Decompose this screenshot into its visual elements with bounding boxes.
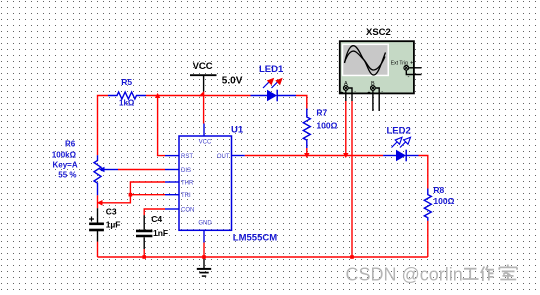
U1 pin TRI xyxy=(165,193,191,199)
svg-text:+: + xyxy=(340,90,343,96)
svg-text:OUT: OUT xyxy=(217,154,230,160)
wire R6.bottom to C3.top xyxy=(97,195,99,208)
potentiometer R6 xyxy=(52,140,118,196)
wire scope A- to ground bus xyxy=(351,101,353,257)
resistor R7 xyxy=(303,108,337,149)
wire THR net xyxy=(100,182,165,203)
op-amp U1 LM555CM timer body xyxy=(179,125,277,244)
U1 pin DIS xyxy=(165,168,191,174)
svg-text:RST: RST xyxy=(181,154,193,160)
LED LED1 (lit) xyxy=(251,64,297,101)
wire R5.right to LED1 anode (top rail) xyxy=(146,95,251,97)
ground xyxy=(197,257,211,276)
wire R7.bottom to OUT net xyxy=(306,148,308,156)
wire R5.left to R6.top rail xyxy=(98,96,109,156)
wire C3.bottom to ground bus xyxy=(97,242,99,257)
oscilloscope screen with sine trace xyxy=(342,44,389,77)
svg-text:100kΩ: 100kΩ xyxy=(52,151,77,160)
U1 pin GND (bottom) xyxy=(198,221,212,243)
junction TRI/THR tap xyxy=(129,193,133,197)
oscilloscope terminal A xyxy=(340,81,356,101)
svg-text:C4: C4 xyxy=(151,214,162,224)
junction scope A+/OUT tap xyxy=(343,153,348,158)
svg-text:GND: GND xyxy=(198,221,212,227)
capacitor C4 xyxy=(136,214,168,249)
wire scope A+ to OUT net xyxy=(345,101,347,156)
resistor R8 xyxy=(424,185,454,221)
svg-text:R5: R5 xyxy=(121,77,132,87)
svg-text:LED1: LED1 xyxy=(259,64,284,75)
wire TRI net xyxy=(130,194,165,196)
wire C4.bottom to ground bus xyxy=(143,249,145,257)
U1 pin RST xyxy=(165,154,193,160)
watermark CSDN @corlin studio xyxy=(346,265,518,285)
svg-text:R8: R8 xyxy=(433,185,444,195)
svg-text:R6: R6 xyxy=(65,140,76,149)
junction scope A-/ground bus xyxy=(350,255,354,259)
svg-text:55 %: 55 % xyxy=(58,171,76,180)
wire OUT net horizontal run xyxy=(245,155,383,157)
svg-text:XSC2: XSC2 xyxy=(366,27,391,38)
svg-text:VCC: VCC xyxy=(199,140,212,146)
wire RST net xyxy=(158,96,165,156)
junction R5/RST tap xyxy=(155,93,160,98)
svg-text:Key=A: Key=A xyxy=(53,161,78,170)
U1 pin OUT xyxy=(217,154,245,160)
svg-text:-: - xyxy=(381,89,383,95)
svg-text:CON: CON xyxy=(181,208,194,214)
wire CON net to C4.top xyxy=(144,209,165,215)
resistor R5 xyxy=(108,77,146,108)
junction VCC tap xyxy=(199,91,204,96)
wire R8.bottom to ground bus xyxy=(427,221,429,257)
svg-text:R7: R7 xyxy=(316,108,327,118)
wire VCC tap to U1 VCC pin xyxy=(203,92,205,124)
svg-text:-: - xyxy=(354,89,356,95)
wire DIS net (from R6 wiper) xyxy=(118,169,165,171)
oscilloscope terminal Ext Trig xyxy=(391,60,422,80)
oscilloscope terminal B xyxy=(367,81,383,111)
svg-text:VCC: VCC xyxy=(193,61,213,72)
svg-text:TRI: TRI xyxy=(181,193,191,199)
svg-text:1nF: 1nF xyxy=(153,228,168,238)
svg-text:1kΩ: 1kΩ xyxy=(119,99,135,108)
junction THR wire at R6 bottom xyxy=(97,200,103,206)
svg-text:1µF: 1µF xyxy=(106,220,121,230)
svg-text:+: + xyxy=(367,90,370,96)
junction GND pin/ground bus xyxy=(202,255,206,259)
svg-text:C3: C3 xyxy=(106,207,117,217)
svg-text:+: + xyxy=(410,61,414,67)
capacitor C3 (polarized) xyxy=(89,207,121,242)
U1 pin VCC (top) xyxy=(199,124,212,146)
svg-text:LM555CM: LM555CM xyxy=(233,233,277,244)
wire ground bus xyxy=(98,256,428,258)
wire U1 GND pin to ground bus xyxy=(203,243,205,258)
VCC power symbol, 5.0V xyxy=(190,61,243,91)
junction C4/ground bus xyxy=(142,255,146,259)
oscilloscope XSC2 body xyxy=(340,27,414,93)
svg-text:THR: THR xyxy=(181,181,194,187)
U1 pin CON xyxy=(165,208,194,214)
svg-text:100Ω: 100Ω xyxy=(316,121,337,131)
svg-text:LED2: LED2 xyxy=(387,126,411,137)
U1 pin THR xyxy=(165,181,194,187)
wire LED1 cathode to R7.top xyxy=(296,96,307,109)
svg-text:-: - xyxy=(408,75,410,81)
junction R7/OUT tap xyxy=(304,153,309,158)
wire LED2 cathode to R8.top xyxy=(419,156,428,189)
svg-text:DIS: DIS xyxy=(181,168,191,174)
LED LED2 (off) xyxy=(383,126,418,162)
svg-text:100Ω: 100Ω xyxy=(433,196,454,206)
svg-text:U1: U1 xyxy=(231,125,244,136)
svg-text:CSDN @corlin: CSDN @corlin xyxy=(346,265,463,285)
svg-text:5.0V: 5.0V xyxy=(222,75,243,86)
